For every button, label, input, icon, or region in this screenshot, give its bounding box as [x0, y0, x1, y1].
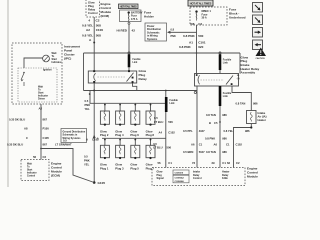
IPC name label	[64, 44, 80, 60]
junction dot bus / fusible column	[165, 90, 167, 92]
wire label 0.8 PNK at arrow	[171, 28, 176, 38]
svg-text:0.5: 0.5	[153, 142, 157, 146]
svg-text:A8: A8	[24, 127, 28, 131]
fusible link (heater relay switch feed)	[219, 54, 222, 70]
svg-text:Link: Link	[223, 61, 229, 64]
svg-text:Plug 2: Plug 2	[100, 133, 109, 137]
svg-text:867: 867	[43, 142, 48, 146]
svg-text:Wait: Wait	[27, 162, 32, 165]
splice junction	[40, 148, 42, 150]
wire label HI RED 42	[117, 28, 136, 32]
svg-text:0.5 PPL: 0.5 PPL	[183, 129, 193, 133]
ECM inner text glow plug signal	[157, 171, 165, 180]
svg-text:867: 867	[43, 118, 48, 122]
wait to start indicator lamp	[43, 55, 50, 62]
svg-text:Link: Link	[170, 102, 176, 105]
relay coil	[94, 73, 96, 81]
svg-text:4347: 4347	[199, 129, 205, 133]
driver text	[38, 86, 48, 101]
svg-text:Indicator: Indicator	[52, 61, 62, 64]
svg-text:73: 73	[192, 161, 196, 165]
svg-text:0.8 YEL: 0.8 YEL	[82, 23, 93, 27]
svg-text:986: 986	[222, 137, 227, 141]
fusible link (glow plug banks)	[165, 97, 168, 112]
lamp label	[52, 52, 62, 64]
svg-text:0.8 PNK: 0.8 PNK	[179, 45, 191, 49]
relay output elbow	[133, 83, 137, 91]
ECM (bottom right) dashed box	[152, 168, 245, 186]
pin 62 C2 label	[227, 161, 240, 165]
svg-text:Systems: Systems	[147, 38, 158, 41]
svg-text:986: 986	[253, 102, 258, 106]
svg-text:PNK: PNK	[84, 159, 90, 163]
svg-text:986: 986	[245, 129, 250, 133]
svg-text:PNK: PNK	[85, 103, 91, 107]
ECM (bottom left) name label	[51, 161, 62, 177]
connector A C102 (row2)	[86, 138, 99, 142]
nav icon arrow right	[253, 28, 263, 38]
glow plug 1	[100, 138, 109, 170]
wire label 0.8 TAN 986 (3)	[206, 150, 227, 154]
svg-text:HOT AT ALL TIMES: HOT AT ALL TIMES	[190, 2, 212, 6]
relay switch	[127, 73, 134, 82]
fusible link (relay feed)	[128, 54, 131, 67]
svg-text:5047: 5047	[199, 150, 205, 154]
svg-text:Control: Control	[88, 11, 98, 15]
svg-text:C102: C102	[236, 142, 243, 146]
svg-text:Air (IA): Air (IA)	[258, 115, 267, 119]
branch wire to ground	[41, 149, 94, 183]
svg-text:506: 506	[168, 120, 173, 124]
svg-text:508: 508	[96, 34, 101, 38]
pin 56 C2	[33, 155, 47, 159]
svg-text:Plug 1: Plug 1	[100, 166, 109, 170]
svg-text:0.8: 0.8	[171, 28, 175, 31]
ground distribution reference box	[61, 129, 87, 143]
svg-text:C105: C105	[43, 136, 50, 140]
ground wire to G105	[93, 91, 95, 183]
wire label 0.5 PNK YEL	[85, 99, 91, 111]
svg-text:G105: G105	[98, 181, 106, 185]
main feed line	[84, 52, 241, 54]
arrow into power distribution box	[167, 31, 197, 34]
svg-text:0.5: 0.5	[63, 138, 67, 142]
svg-text:(IPC): (IPC)	[64, 56, 71, 60]
svg-text:0.5: 0.5	[154, 116, 158, 120]
svg-text:C2: C2	[236, 161, 240, 165]
connector A8 P100	[24, 127, 49, 131]
svg-text:Plug 7: Plug 7	[146, 166, 155, 170]
svg-text:D8: D8	[191, 22, 195, 26]
wire label 0.35 DK BLU 867	[9, 118, 47, 122]
svg-text:A: A	[86, 138, 88, 142]
svg-text:56: 56	[33, 155, 37, 159]
heater relay assembly box	[195, 74, 241, 87]
sense column upper stub	[165, 91, 167, 98]
svg-text:0.8 TAN: 0.8 TAN	[236, 102, 246, 106]
svg-text:LT BLU: LT BLU	[154, 120, 163, 124]
svg-text:Plug 5: Plug 5	[130, 166, 139, 170]
glow plug 5	[130, 138, 139, 170]
arrow up on ground wire	[93, 135, 96, 139]
wire label 0.8 TAN 986 (2)	[206, 113, 227, 117]
fusible link text	[223, 58, 232, 64]
junction dot below heater	[250, 126, 252, 128]
svg-text:A6: A6	[191, 142, 195, 146]
svg-text:620: 620	[198, 45, 203, 49]
svg-text:LT BLU: LT BLU	[153, 146, 162, 150]
fusible link text	[170, 99, 179, 105]
tan wire continues to ECM	[219, 106, 221, 168]
svg-text:Plug 6: Plug 6	[130, 133, 139, 137]
ECM inner text intake relay control	[193, 171, 202, 180]
svg-text:P100: P100	[43, 127, 50, 131]
svg-text:Control: Control	[27, 174, 36, 177]
glow plug 2	[100, 103, 109, 137]
svg-text:A6: A6	[214, 142, 218, 146]
ECM (bottom right) name label	[247, 166, 258, 178]
fusible link text 2	[223, 92, 232, 98]
svg-text:0.8 TAN: 0.8 TAN	[206, 113, 216, 117]
svg-text:Heater: Heater	[258, 118, 266, 122]
junction dot bus/ground wire	[93, 90, 95, 92]
wire 500 from fuse block	[196, 25, 198, 74]
svg-text:Fusible: Fusible	[133, 59, 142, 61]
svg-text:C102: C102	[92, 138, 99, 142]
svg-text:(ECM): (ECM)	[101, 14, 110, 18]
svg-text:C1: C1	[226, 142, 230, 146]
wire label 0.5 LT BLU 506	[154, 116, 173, 124]
svg-text:56: 56	[158, 161, 162, 165]
svg-text:A2: A2	[39, 106, 43, 110]
svg-text:C0265 B: C0265 B	[175, 173, 184, 175]
heater switch output jog	[232, 86, 251, 111]
svg-text:Underhood: Underhood	[229, 15, 246, 19]
wire label 0.8 PNK 500 (branch)	[183, 34, 204, 38]
svg-text:Relay: Relay	[88, 7, 96, 11]
wire label 0.8 TAN 986	[236, 102, 258, 106]
nav icon diagonal 2	[253, 15, 263, 25]
svg-text:C2: C2	[43, 155, 47, 159]
svg-text:C2: C2	[96, 19, 100, 23]
svg-text:C: C	[26, 136, 28, 140]
wire 508 ECM to relay coil	[93, 17, 95, 71]
relay pin squares	[93, 70, 133, 83]
connector C C105	[26, 136, 49, 140]
svg-text:0.8 YEL: 0.8 YEL	[224, 129, 234, 133]
wire label 0.8 YEL 508 (2)	[82, 34, 101, 38]
svg-text:Driver: Driver	[38, 98, 45, 101]
svg-text:29: 29	[212, 161, 216, 165]
glow plug 6	[130, 103, 139, 137]
svg-text:YEL: YEL	[85, 107, 91, 111]
svg-text:B: B	[209, 121, 211, 125]
svg-text:62: 62	[227, 161, 231, 165]
wire label 0.5 PNK YEL (2)	[84, 155, 90, 167]
svg-text:Relay: Relay	[139, 77, 148, 81]
svg-text:A1: A1	[189, 40, 193, 44]
svg-text:4: 4	[88, 19, 90, 23]
wire into assembly	[219, 70, 221, 74]
svg-text:A4: A4	[159, 131, 163, 135]
wire label 0.5 LT BLU 506 (2)	[153, 142, 171, 150]
svg-text:Glow: Glow	[88, 1, 95, 5]
svg-text:0.5: 0.5	[85, 99, 89, 103]
svg-text:HOT AT ALL TIMES: HOT AT ALL TIMES	[120, 6, 137, 9]
relay internal dashed link	[98, 76, 126, 78]
svg-text:Holder: Holder	[144, 14, 155, 18]
fusible link text	[133, 59, 142, 64]
svg-text:C100: C100	[96, 28, 104, 32]
banner hot at all times (fuse block)	[188, 0, 213, 6]
svg-text:0.8 YEL: 0.8 YEL	[82, 34, 93, 38]
svg-text:C102: C102	[168, 131, 175, 135]
svg-text:Fdbk: Fdbk	[222, 177, 228, 180]
ECM (top) name label	[101, 2, 112, 18]
svg-text:CAUTION: CAUTION	[256, 57, 266, 60]
svg-text:500: 500	[198, 34, 203, 38]
pin 56 C1	[158, 161, 173, 165]
svg-text:0.5 BRN: 0.5 BRN	[183, 150, 193, 154]
fuse holder box	[120, 10, 143, 22]
svg-text:PNK: PNK	[171, 35, 176, 38]
glow plug 8	[146, 103, 155, 137]
splice B C5	[209, 121, 221, 125]
svg-text:Start: Start	[27, 168, 32, 171]
ECM inner text heater relay fdbk	[222, 171, 230, 180]
svg-text:(ECM): (ECM)	[51, 173, 60, 177]
sense wire down to ECM	[165, 112, 167, 168]
svg-text:42: 42	[132, 28, 136, 32]
branch label 0.5 LT GRN/WHT	[55, 138, 72, 146]
connector bubble below holder	[128, 22, 130, 24]
svg-text:(+): (+)	[237, 78, 240, 80]
feed drop right into heater relay assembly	[239, 53, 241, 74]
connector A2 C100	[86, 28, 103, 32]
intake air heater box	[247, 111, 267, 124]
underhood fuse block dashed box	[190, 7, 227, 25]
ECM (top) dashed box	[86, 0, 100, 17]
glow plug 4	[115, 103, 124, 137]
svg-text:HI RED: HI RED	[117, 28, 128, 32]
feed drop left	[83, 53, 85, 91]
svg-text:A2: A2	[86, 28, 90, 32]
glow plug relay box	[88, 71, 136, 83]
wire label 0.8 YEL 508	[82, 23, 101, 27]
ground G105	[93, 181, 105, 185]
svg-text:Plug 4: Plug 4	[115, 133, 124, 137]
IPC output wire 867	[40, 104, 42, 160]
banner hot at all times (fuse holder)	[119, 4, 139, 9]
driver switch symbol	[21, 72, 25, 86]
junction bubble at feed line	[128, 52, 130, 54]
svg-text:Plug 8: Plug 8	[146, 133, 155, 137]
ECM inner text wait to start control	[27, 162, 37, 177]
svg-text:0.35 DK BLU: 0.35 DK BLU	[7, 142, 23, 146]
lamp wire	[24, 58, 43, 68]
relay coil ground pin drop	[93, 83, 95, 91]
nav icon diagonal 1	[253, 3, 263, 13]
svg-text:986: 986	[222, 150, 227, 154]
page margin line	[7, 0, 9, 187]
svg-text:0.8 PNK: 0.8 PNK	[183, 34, 195, 38]
svg-text:Intake: Intake	[258, 111, 266, 115]
fuse symbol in holder	[128, 11, 130, 21]
warning triangle	[256, 48, 267, 60]
connector A4 C102	[159, 131, 176, 135]
svg-text:Module: Module	[247, 174, 258, 178]
junction bubble heater relay feed	[219, 52, 221, 54]
svg-text:Link: Link	[223, 95, 229, 98]
svg-text:506: 506	[167, 146, 172, 150]
svg-text:Assembly: Assembly	[241, 71, 256, 75]
svg-text:0.8 PNK: 0.8 PNK	[205, 137, 215, 141]
coil control wire down to ECM pin 73	[196, 86, 198, 168]
fuse holder name label	[144, 10, 155, 18]
junction bubble at bus end	[194, 91, 196, 93]
svg-text:0.5: 0.5	[84, 155, 88, 159]
svg-text:175 A: 175 A	[131, 18, 138, 21]
pin 29 C1 label	[212, 161, 227, 165]
wire label 0.8 PNK 986	[205, 137, 227, 141]
svg-text:C101: C101	[198, 40, 206, 44]
glow plug relay label	[139, 69, 148, 81]
row 2 feed bus	[102, 137, 166, 139]
glow plug 3	[115, 138, 124, 170]
heater return jog to ECM	[234, 124, 252, 168]
svg-text:YEL: YEL	[84, 163, 90, 167]
connector A1 C101	[189, 40, 206, 44]
glow plug 7	[146, 138, 155, 170]
svg-text:Plug 3: Plug 3	[115, 166, 124, 170]
wire 42 from fuse holder	[128, 24, 130, 52]
svg-text:Signal: Signal	[157, 177, 165, 180]
wire label 0.5 BRN 5047	[183, 150, 205, 154]
IPC inner dashed box	[18, 68, 57, 102]
svg-text:C0380A2: C0380A2	[175, 176, 185, 179]
fuse symbol in fuse block	[195, 10, 197, 20]
nav icon arrow left	[253, 40, 263, 50]
fuse block name label	[229, 7, 246, 19]
svg-text:C1: C1	[199, 142, 203, 146]
svg-text:Control: Control	[193, 177, 202, 180]
svg-text:C2: C2	[198, 22, 202, 26]
connector row A6 C1 C102	[191, 142, 242, 146]
svg-text:986: 986	[222, 113, 227, 117]
pin D8 C2	[191, 22, 203, 26]
wire label 0.5 PPL 4347	[183, 129, 205, 133]
svg-text:Link: Link	[133, 62, 138, 64]
svg-text:0.8 TAN: 0.8 TAN	[206, 150, 216, 154]
svg-text:C1: C1	[168, 161, 172, 165]
fusible link (glow plug right bank feed)	[219, 86, 222, 106]
svg-text:0.35 DK BLU: 0.35 DK BLU	[9, 118, 25, 122]
row 1 feed bus	[90, 91, 166, 104]
ECM inner DTC boxes	[173, 170, 189, 183]
svg-text:Plug: Plug	[88, 4, 94, 8]
heater relay assembly label	[241, 55, 260, 74]
svg-text:Indicator: Indicator	[27, 171, 37, 174]
svg-text:C5: C5	[214, 121, 218, 125]
svg-text:LT GRN/WHT: LT GRN/WHT	[55, 142, 72, 146]
pin 4 C2 label	[88, 19, 99, 23]
wire into relay pin	[128, 67, 130, 71]
power distribution reference box	[145, 23, 167, 41]
svg-text:C1: C1	[222, 161, 226, 165]
svg-text:508: 508	[96, 23, 101, 27]
junction fuse block wire / feed line	[196, 52, 198, 54]
wire label 0.35 DK BLU 867 (2)	[7, 142, 47, 146]
wire label 0.8 PNK 620	[179, 45, 204, 49]
svg-text:30 A: 30 A	[202, 17, 207, 20]
svg-text:Ignition: Ignition	[43, 68, 52, 71]
wire label 0.8 YEL	[224, 129, 250, 133]
ECM (bottom left) dashed box	[21, 160, 49, 181]
IPC dashed box	[12, 43, 62, 104]
svg-text:C0380A5: C0380A5	[175, 180, 185, 183]
main output bus	[84, 90, 198, 92]
